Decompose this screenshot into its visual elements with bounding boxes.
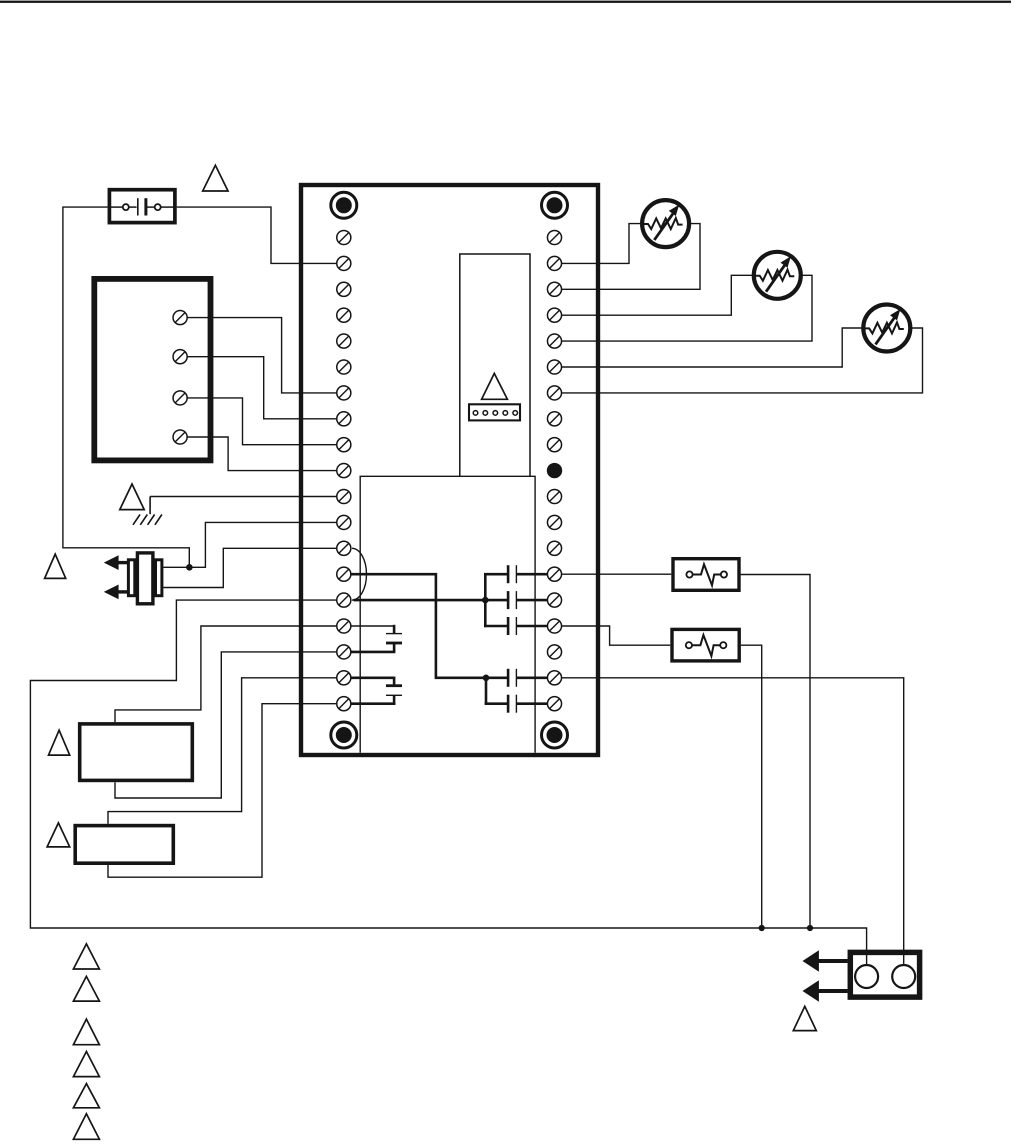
contact group 2 bus [485, 677, 488, 705]
wire: TS1 right to R3 [562, 224, 700, 290]
aquastat A2 symbol [686, 635, 727, 656]
B1 screw c [173, 391, 187, 405]
pump P right circle [892, 965, 915, 988]
sensor TS1 [642, 200, 689, 247]
aquastat A1 symbol [686, 564, 727, 585]
junction dot bottom wire left [759, 925, 765, 931]
right terminal strip R1-R19 [547, 230, 561, 710]
wire: T15 to lower loop and pump P box circuit [30, 600, 866, 964]
jumper arc T13 to T15 [352, 548, 366, 600]
disconnect switch S1 box [109, 190, 174, 223]
wire: B1 c to T9 [188, 398, 337, 445]
B1 screw b [173, 350, 187, 364]
sensor TS3 [863, 305, 910, 352]
callout triangle 6 (connector) [482, 373, 508, 399]
inner connector bay rectangle [460, 254, 530, 476]
contact K2a (to R18) [485, 669, 547, 687]
mounting hole bottom-left [331, 722, 357, 748]
junction dot group 1 [482, 597, 489, 604]
wire: R14 to A1 [562, 573, 671, 575]
callout triangle 3 (gas valve) [45, 554, 66, 578]
wire: S1 left pole to junction at gas valve [63, 207, 189, 567]
pump P left circle [855, 965, 878, 988]
wire: B1 d to T10 [188, 437, 337, 471]
contact K1a (to R14) [484, 565, 547, 583]
junction dot group 2 [483, 675, 490, 682]
callout triangle 7 (pump) [793, 1006, 816, 1030]
wire: TS2 right to R5 [562, 275, 812, 341]
wire: A1 to bottom node [741, 575, 810, 929]
gas valve arrow lower [104, 585, 129, 600]
wire: RB top lead to T18 [108, 678, 336, 824]
junction dot valve node [186, 564, 193, 571]
inner relay compartment box [360, 476, 535, 753]
gas valve arrow upper [104, 555, 129, 570]
wire: R6 to TS3 left [562, 328, 863, 367]
sensor TS2 [754, 252, 801, 299]
footnote triangle stack 5 [73, 1084, 99, 1108]
B1 screw d [173, 430, 187, 444]
wire: ground to T11 [150, 496, 336, 498]
wire: R4 to TS2 left [562, 275, 754, 315]
aquastat A1 box [673, 559, 739, 591]
pump arrow lower [803, 980, 848, 1002]
contact K2b (to R19) [485, 695, 547, 713]
contact group 1 bus [484, 573, 487, 627]
footnote triangle stack 2 [73, 976, 99, 1001]
wire: RB bottom lead to T19 [108, 704, 336, 878]
wire: S1 right pole to terminal T2 [177, 207, 337, 263]
wire: R18 to pump P right terminal [562, 678, 904, 964]
callout triangle 5 (relay RB) [47, 823, 70, 847]
callout triangle 1 [203, 165, 228, 191]
wire: T15 internal to contact group 1 [354, 599, 485, 602]
wire: TS3 right to R7 [562, 328, 923, 393]
wire: T14 internal to contact group 2 [351, 574, 484, 678]
gas valve body [128, 553, 162, 604]
wire: R2 to TS1 left [562, 224, 642, 264]
callout triangle 4 (relay RA) [49, 730, 70, 755]
solid pad R10 [547, 463, 562, 478]
relay contact pair B (T18/T19) [351, 677, 402, 705]
B1 screw a [173, 311, 187, 325]
top page rule [0, 1, 1011, 3]
relay box RB [75, 826, 173, 864]
wire: R16 to A2 [562, 626, 670, 645]
wire: valve lower lead to T13 [163, 548, 336, 587]
connector J1 5-pin header [469, 404, 520, 420]
mounting hole top-right [542, 192, 568, 218]
pump arrow upper [803, 950, 848, 972]
controller module outline [301, 185, 598, 755]
relay contact pair A (T16/T17) [351, 625, 402, 652]
wire: B1 b to T8 [188, 357, 337, 419]
footnote triangle stack 6 [73, 1114, 99, 1140]
aquastat A2 box [672, 629, 739, 661]
wire: RA top lead to T16 [115, 626, 336, 722]
pump P terminal box [850, 952, 919, 997]
mounting hole top-left [331, 192, 357, 218]
left terminal strip T1-T19 [337, 230, 351, 710]
boiler limit box B1 [94, 279, 210, 461]
mounting hole bottom-right [542, 722, 568, 748]
callout triangle 2 (earth) [120, 484, 144, 510]
wire: valve upper lead to T12 [163, 522, 336, 567]
wire: A2 to bottom node [741, 645, 762, 928]
earth ground symbol [133, 497, 162, 525]
relay box RA [80, 724, 193, 781]
footnote triangle stack 4 [73, 1052, 99, 1077]
junction dot bottom wire right [807, 925, 813, 931]
contact K1c (to R16) [484, 617, 547, 635]
footnote triangle stack 3 [73, 1019, 99, 1045]
wire: RA bottom lead to T17 [115, 652, 336, 798]
wire: B1 a to T7 [188, 318, 337, 393]
contact K1b (to R15) [484, 591, 547, 609]
switch S1 contact symbol [111, 198, 174, 215]
footnote triangle stack 1 [73, 944, 99, 969]
